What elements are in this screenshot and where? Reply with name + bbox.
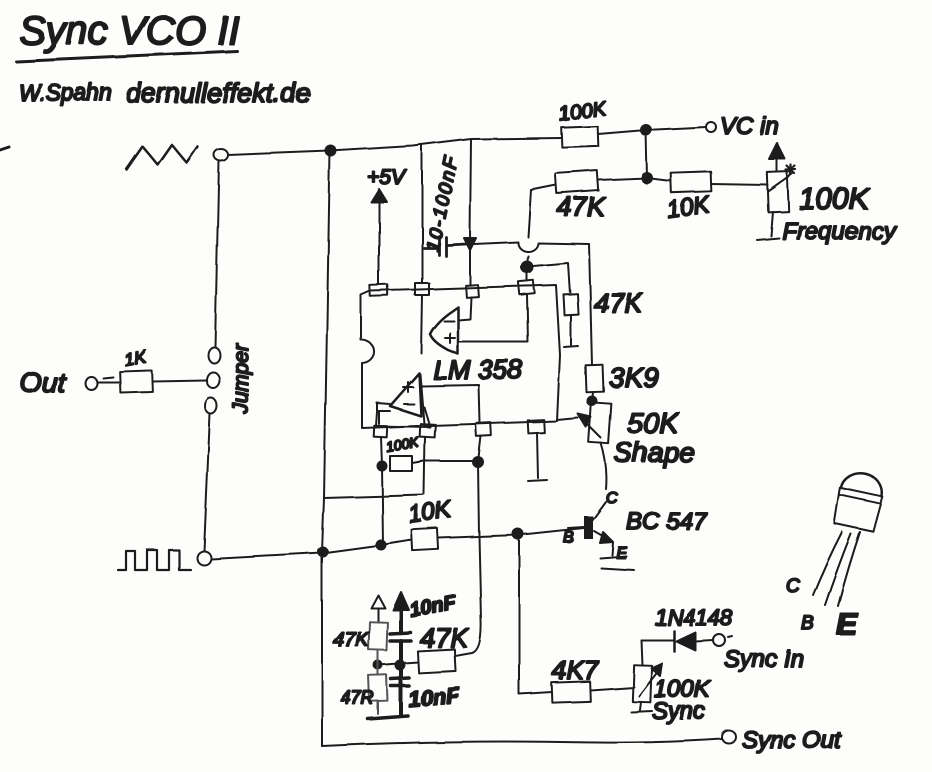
terminal node Sync In: [713, 634, 725, 646]
wire pot down to transistor collector: [601, 443, 606, 489]
square wave symbol: [118, 550, 191, 570]
svg-text:10nF: 10nF: [407, 683, 461, 712]
potentiometer RV 100K Frequency: [757, 143, 897, 245]
wire: cap row vertical to 3k9: [589, 244, 592, 365]
wire pin4 bottom stub with tick: [528, 433, 547, 481]
wire 100K right to VC in: [598, 127, 706, 134]
+5V supply arrow: [367, 166, 407, 285]
wire cap stem mid: [399, 641, 403, 686]
node junction dot 100K right: [473, 457, 483, 467]
svg-text:1K: 1K: [122, 346, 148, 370]
wire 10K to transistor base: [438, 528, 584, 538]
wire inner vertical pin2 into box: [421, 295, 422, 353]
pin bottom 4: [528, 420, 545, 434]
terminal node: Sync Out: [722, 731, 736, 744]
op-amp U1B (bottom, points left): [390, 373, 421, 416]
capacitor C 10nF lower plates: [391, 678, 461, 712]
svg-text:Jumper: Jumper: [230, 343, 253, 415]
wire 10K to pot: [711, 184, 768, 185]
wire 47K down with tick: [564, 315, 578, 347]
transistor Q1 BC547: [563, 502, 708, 570]
supply arrow thick (caps area): [393, 592, 459, 632]
wire diode to sync in node: [695, 640, 713, 641]
wire: base junction down to 4K7: [519, 535, 552, 694]
wire: junction down to caps 47K: [455, 462, 481, 656]
resistor R 47K right column: [563, 288, 643, 318]
svg-text:W.Spahn: W.Spahn: [18, 79, 112, 105]
pin top 3: [466, 285, 479, 298]
wire: bottom long to Sync Out: [322, 739, 722, 746]
wire: circle to jumper: [215, 161, 219, 347]
resistor R 100K feedback small: [385, 433, 421, 471]
wire 47K left down: [531, 185, 556, 190]
svg-text:50K: 50K: [627, 408, 680, 440]
resistor R 47K (caps left upper): [333, 622, 387, 651]
supply arrow small (caps area): [371, 595, 385, 622]
svg-text:100K: 100K: [799, 183, 871, 216]
junction arrow down on pin3 line: [464, 238, 476, 250]
pin top 2: [415, 283, 429, 295]
pin bottom 1: [374, 426, 388, 438]
capacitor C 10nF upper plates: [390, 633, 411, 641]
wire pot to diode: [641, 639, 674, 641]
svg-text:47K: 47K: [333, 629, 370, 651]
title Sync VCO II: [16, 9, 239, 61]
wire: VC dot down to row2: [646, 130, 647, 178]
wire: horizontal mid (y497): [324, 495, 423, 498]
node junction dot row2: [642, 173, 652, 183]
wire op-amp2 right vertical: [420, 374, 424, 424]
svg-text:47R: 47R: [341, 688, 374, 708]
resistor R 100K (VC in row): [558, 97, 609, 147]
op-amp U1A (top, points left): [430, 307, 458, 354]
wire cap row to right with hop: [474, 242, 589, 252]
capacitor C 10-100nF: [422, 153, 466, 256]
wire op-amp1 minus stub to pin3: [458, 297, 471, 320]
svg-text:3K9: 3K9: [609, 362, 659, 393]
wire 3k9 to pot: [592, 392, 593, 402]
svg-text:4K7: 4K7: [552, 655, 600, 685]
wire out to resistor: [97, 377, 120, 382]
resistor R 47K (row2): [555, 171, 606, 222]
svg-text:1N4148: 1N4148: [655, 605, 733, 630]
resistor R 1K: [120, 346, 153, 392]
svg-text:47K: 47K: [420, 623, 469, 653]
wire: vertical to pin3 top: [470, 139, 471, 285]
terminal node VC in: [706, 122, 716, 132]
svg-text:Sync In: Sync In: [724, 646, 804, 673]
svg-text:+5V: +5V: [367, 166, 407, 189]
wire 100K to junction: [412, 461, 478, 463]
potentiometer RV 100K Sync: [631, 640, 711, 725]
wire 4K7 to sync pot: [590, 687, 634, 690]
svg-text:VC in: VC in: [720, 113, 779, 140]
pin top 4: [518, 280, 534, 294]
resistor R 47R (caps left lower): [341, 675, 387, 708]
resistor R 10K mid: [407, 496, 454, 551]
wire box to 50K wiper: [557, 418, 578, 420]
node junction dot below hop: [522, 262, 533, 273]
svg-text:LM 358: LM 358: [433, 355, 523, 385]
svg-text:Sync Out: Sync Out: [742, 727, 842, 754]
svg-text:BC 547: BC 547: [626, 508, 708, 535]
resistor R 3K9: [586, 362, 659, 393]
node junction dot 3k9/pot: [588, 397, 597, 406]
label Sync In: [724, 636, 804, 673]
node junction dot top wire: [326, 146, 336, 156]
svg-text:47K: 47K: [557, 192, 606, 222]
svg-text:E: E: [616, 545, 627, 562]
svg-text:dernulleffekt.de: dernulleffekt.de: [126, 78, 311, 108]
wire dot to 10K: [647, 178, 671, 181]
left margin tick: [0, 147, 9, 150]
resistor R 4K7: [552, 655, 600, 703]
potentiometer RV 50K Shape: [578, 402, 695, 468]
svg-text:Out: Out: [20, 367, 66, 398]
resistor R 10K (row2): [665, 171, 712, 224]
wire: pin3 bottom stub: [478, 436, 481, 462]
IC U1 LM358 body: [361, 285, 560, 428]
op-amp2 output stub box: [377, 403, 390, 424]
node junction dot: [377, 541, 386, 550]
op-amp2 wrap strokes: [376, 407, 430, 427]
node junction on square wire: [319, 548, 328, 557]
pin bottom 3: [476, 423, 492, 437]
terminal node: Out: [85, 377, 97, 390]
diode D 1N4148: [655, 605, 733, 651]
wire: inner vertical to pin2 top: [421, 146, 423, 283]
wire stems to ground: [399, 686, 403, 716]
wire: 47K row corner down to hop: [527, 190, 531, 267]
svg-text:B: B: [563, 529, 574, 546]
wire resistor to jumper middle: [152, 380, 206, 381]
wire: top horizontal: [228, 138, 562, 155]
terminal node: square wave out: [197, 551, 211, 565]
wire 47K right to dot: [598, 178, 647, 180]
terminal node: triangle out: [214, 149, 228, 161]
svg-text:Sync VCO II: Sync VCO II: [19, 9, 239, 53]
pin top 1 (+5V): [370, 285, 388, 297]
triangle wave symbol: [127, 145, 198, 170]
svg-text:C: C: [606, 490, 618, 507]
svg-text:B: B: [801, 613, 814, 634]
wire: jumper to square-wave node: [204, 414, 210, 551]
wire: pin2 bottom down-left: [424, 437, 425, 494]
wire op-amp1 output feedback to pin4: [458, 295, 528, 342]
jumper J1: [205, 343, 253, 415]
svg-text:Sync: Sync: [652, 698, 705, 725]
svg-text:E: E: [836, 606, 858, 641]
wire caps mid horizontal: [378, 662, 418, 665]
svg-text:47K: 47K: [594, 288, 643, 318]
wire: pin1 bottom down to 10K wire: [381, 437, 383, 545]
node junction dot 100K left: [378, 462, 387, 471]
node junction dot base wire: [513, 529, 523, 539]
wire: square node to 10K: [211, 540, 412, 559]
ground bar caps: [368, 716, 408, 719]
svg-text:Shape: Shape: [614, 437, 695, 468]
wire op-amp2 feedback rect to pin3: [421, 385, 480, 422]
TO-92 package drawing: [786, 469, 887, 641]
wire: dot to pin4 top: [526, 267, 528, 281]
node junction dots caps: [374, 661, 382, 669]
svg-text:C: C: [786, 576, 800, 597]
resistor R 47K (caps right): [417, 623, 469, 673]
wire: left long vertical from top dot: [322, 151, 330, 746]
node junction dot VC row: [641, 125, 651, 135]
svg-text:Frequency: Frequency: [782, 218, 897, 245]
pin bottom 2: [420, 424, 436, 438]
wire: dot right to 47K vertical: [533, 263, 570, 294]
